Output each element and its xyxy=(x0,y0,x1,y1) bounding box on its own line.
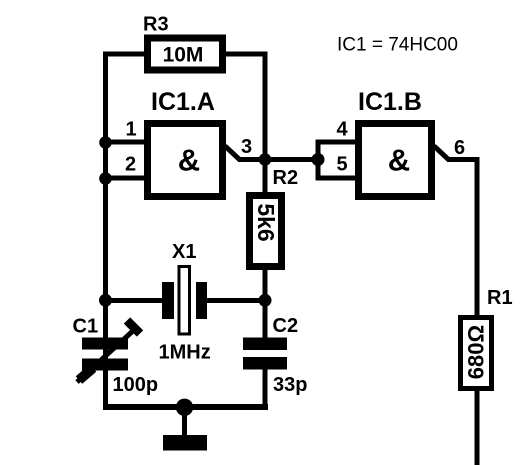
wire: node 3 horizontal to IC1.B inputs xyxy=(238,157,318,162)
wire: IC1.A pin 2 stub xyxy=(106,176,148,181)
wire: C2 bottom plate to bottom rail xyxy=(263,367,268,407)
svg-text:X1: X1 xyxy=(172,241,196,263)
wire: pin 6 output to R1 drop xyxy=(447,160,477,319)
junction dot: pin 2 node xyxy=(99,172,112,185)
junction dot: pin 1 node xyxy=(99,136,112,149)
svg-text:R1: R1 xyxy=(487,287,513,309)
svg-text:6: 6 xyxy=(454,137,465,159)
svg-text:4: 4 xyxy=(336,119,348,141)
ground xyxy=(163,435,207,451)
wire: crystal left lead xyxy=(106,298,165,303)
wire: IC1.B pin 5 stub xyxy=(318,176,358,181)
svg-text:IC1.B: IC1.B xyxy=(358,88,422,116)
crystal X1 body xyxy=(179,267,190,335)
svg-text:C1: C1 xyxy=(73,316,99,338)
gate IC1.A body xyxy=(148,124,223,197)
capacitor C2 plates xyxy=(243,338,287,351)
wire: ground stub from bottom rail xyxy=(182,407,187,437)
junction dot: ground node xyxy=(176,399,193,416)
svg-text:680Ω: 680Ω xyxy=(464,325,489,379)
wire: IC1.B output diagonal (pin 6) xyxy=(434,146,449,160)
junction dot: crystal right node xyxy=(259,294,272,307)
junction dot: node 3 xyxy=(259,153,272,166)
wire: IC1.A pin 1 stub xyxy=(106,140,148,145)
wire: IC1.B input vertical joining pins 4 and 5 xyxy=(316,140,321,181)
svg-text:R3: R3 xyxy=(143,14,169,36)
crystal X1 plates xyxy=(162,282,174,319)
wire: node 3 down to R2 top xyxy=(263,160,268,196)
svg-text:IC1.A: IC1.A xyxy=(151,88,215,116)
svg-text:&: & xyxy=(178,143,200,178)
capacitor C1 (trimmer) plates xyxy=(82,338,128,350)
wire: R1 bottom lead to page edge xyxy=(475,389,480,465)
svg-text:IC1 = 74HC00: IC1 = 74HC00 xyxy=(337,35,458,56)
svg-text:2: 2 xyxy=(125,154,136,176)
svg-text:5: 5 xyxy=(336,154,347,176)
svg-text:5k6: 5k6 xyxy=(253,203,279,241)
svg-text:C2: C2 xyxy=(273,315,299,337)
wire: bottom rail xyxy=(103,404,268,410)
junction dot: IC1.B input node xyxy=(312,153,325,166)
svg-text:3: 3 xyxy=(241,136,252,158)
svg-text:1MHz: 1MHz xyxy=(159,342,211,364)
junction dot: crystal left node xyxy=(99,294,112,307)
wire: left rail from R3 top-left down to bottom rail and across to C2 drop xyxy=(106,54,149,407)
resistor R3 body xyxy=(148,38,223,70)
resistor R2 body xyxy=(250,196,282,267)
svg-text:1: 1 xyxy=(125,119,136,141)
wire: IC1.B pin 4 stub xyxy=(318,140,358,145)
svg-text:&: & xyxy=(388,143,410,178)
wire: R3 right lead and drop to node 3 xyxy=(222,54,265,160)
svg-text:R2: R2 xyxy=(273,167,299,189)
wire: R2 bottom to crystal-right node xyxy=(263,267,268,302)
wire: IC1.A output diagonal (pin 3) xyxy=(225,146,240,160)
capacitor C1 trimmer arrow xyxy=(77,329,135,382)
wire: node down to C2 top plate xyxy=(263,301,268,341)
gate IC1.B body xyxy=(359,124,432,197)
svg-text:33p: 33p xyxy=(273,374,307,396)
svg-text:10M: 10M xyxy=(163,44,204,67)
resistor R1 body xyxy=(461,318,492,389)
wire: crystal right lead to node xyxy=(205,298,265,303)
svg-text:100p: 100p xyxy=(113,374,159,396)
